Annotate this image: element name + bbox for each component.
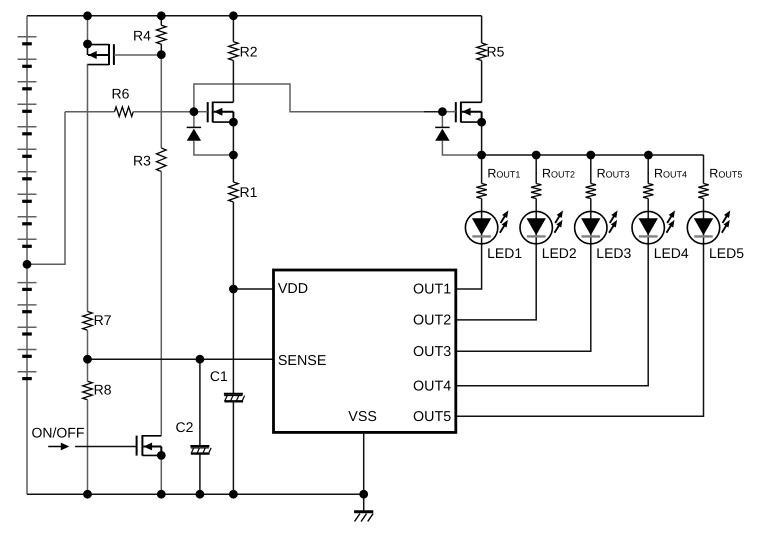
svg-text:ON/OFF: ON/OFF [32,425,85,441]
svg-text:OUT2: OUT2 [413,313,451,329]
svg-text:VDD: VDD [278,281,308,297]
svg-text:C1: C1 [210,368,228,384]
svg-text:LED4: LED4 [654,245,689,261]
svg-text:R3: R3 [133,153,151,169]
svg-text:C2: C2 [176,419,194,435]
svg-text:VSS: VSS [348,409,377,425]
svg-text:R2: R2 [240,44,258,60]
svg-text:ROUT3: ROUT3 [597,166,630,180]
svg-text:LED3: LED3 [596,245,631,261]
svg-text:LED5: LED5 [709,245,744,261]
svg-text:LED2: LED2 [542,245,577,261]
svg-text:R7: R7 [94,312,112,328]
svg-text:OUT1: OUT1 [413,282,451,298]
svg-text:ROUT5: ROUT5 [709,166,742,180]
svg-text:R5: R5 [487,44,505,60]
svg-text:R6: R6 [112,86,130,102]
svg-text:OUT4: OUT4 [413,378,451,394]
svg-text:LED1: LED1 [487,245,522,261]
svg-text:R4: R4 [133,27,151,43]
svg-text:OUT5: OUT5 [413,409,451,425]
svg-text:ROUT2: ROUT2 [542,166,575,180]
svg-text:ROUT4: ROUT4 [654,166,687,180]
svg-text:R8: R8 [94,381,112,397]
svg-text:R1: R1 [240,184,258,200]
svg-text:ROUT1: ROUT1 [487,166,520,180]
svg-text:OUT3: OUT3 [413,344,451,360]
svg-text:SENSE: SENSE [278,353,326,369]
